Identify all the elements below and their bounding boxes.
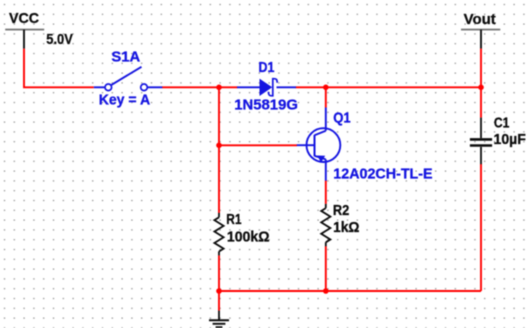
svg-text:R1: R1 (226, 212, 241, 228)
wire ground feed (218, 291, 220, 311)
ground (209, 311, 229, 328)
wire Vout column upper (480, 49, 482, 118)
wire node A down to base branch and R1 (218, 87, 220, 213)
wire node B to Q1 collector (325, 87, 327, 107)
svg-text:S1A: S1A (111, 50, 140, 66)
svg-text:12A02CH-TL-E: 12A02CH-TL-E (333, 166, 433, 182)
junction R2 rail (323, 288, 329, 294)
wire bottom rail (219, 290, 481, 292)
resistor R2 (321, 204, 330, 246)
power Vout (461, 30, 500, 49)
wire switch to node A (162, 86, 219, 88)
resistor R1 (214, 213, 223, 256)
wire Q1 emitter to R2 (325, 181, 327, 204)
svg-text:VCC: VCC (9, 11, 40, 27)
svg-text:1kΩ: 1kΩ (333, 220, 360, 236)
svg-text:1N5819G: 1N5819G (234, 98, 298, 114)
wire node A to diode (219, 86, 238, 88)
transistor Q1 (297, 108, 341, 181)
svg-text:D1: D1 (259, 60, 275, 76)
svg-text:10µF: 10µF (494, 132, 526, 148)
svg-text:C1: C1 (494, 115, 510, 131)
wire C1 to bottom rail (480, 164, 482, 291)
wire base branch (219, 144, 297, 146)
junction node B (323, 85, 329, 91)
junction base branch (216, 143, 222, 149)
wire R2 to bottom rail (325, 246, 327, 291)
power VCC (5, 30, 44, 49)
wire node B to Vout column (326, 86, 481, 88)
junction node A (216, 85, 222, 91)
wire diode to node B (296, 86, 326, 88)
capacitor C1 (470, 118, 492, 165)
svg-text:100kΩ: 100kΩ (227, 230, 270, 246)
junction ground rail (216, 288, 222, 294)
switch S1A (94, 67, 163, 91)
svg-text:5.0V: 5.0V (46, 32, 73, 48)
svg-text:Key = A: Key = A (99, 92, 151, 108)
wire VCC feed (24, 49, 94, 88)
diode D1 (237, 79, 296, 96)
junction Vout column (478, 85, 484, 91)
svg-text:Vout: Vout (464, 12, 496, 28)
svg-text:R2: R2 (333, 203, 349, 219)
svg-text:Q1: Q1 (333, 111, 351, 127)
wire R1 to bottom rail (218, 255, 220, 291)
